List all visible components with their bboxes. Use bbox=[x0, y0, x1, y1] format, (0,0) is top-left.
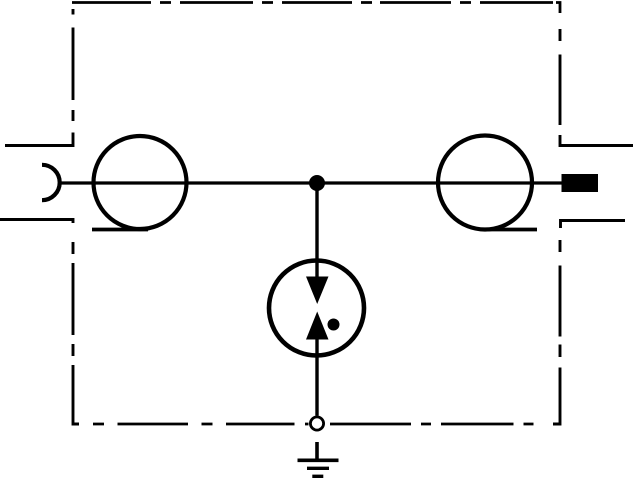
wire: arrester down to earthing terminal bbox=[315, 339, 318, 416]
enclosure boundary: left border upper segments bbox=[72, 9, 75, 121]
feed-through decoupling element (right circle) bbox=[438, 136, 532, 230]
enclosure boundary: left border lower segments bbox=[72, 242, 75, 356]
wire: junction down to arrester bbox=[315, 183, 318, 277]
surge arrester F1: gas discharge tube circle bbox=[269, 261, 364, 356]
female coaxial connector (input socket) bbox=[42, 165, 60, 200]
enclosure boundary: lower-left port notch line with corner tick bbox=[0, 220, 73, 224]
arrester marking dot bbox=[328, 319, 340, 331]
enclosure boundary: top dash-dot border bbox=[72, 1, 553, 4]
ground symbol bar 2 bbox=[307, 467, 329, 470]
feed-through decoupling element (left circle) bbox=[94, 136, 187, 229]
male coaxial connector (output plug) bbox=[562, 174, 599, 192]
enclosure boundary: left border turning into upper-left port notch line bbox=[5, 133, 73, 146]
shield contact line of right feed-through bbox=[486, 228, 537, 232]
wire: main signal path bbox=[59, 181, 562, 184]
shield contact line of left feed-through bbox=[92, 228, 148, 232]
ground symbol stem bbox=[315, 442, 319, 460]
ground symbol bar 1 bbox=[298, 458, 339, 462]
enclosure boundary: lower-right port notch line with corner tick bbox=[561, 221, 626, 229]
enclosure boundary: bottom-right corner bbox=[553, 368, 560, 425]
enclosure boundary: right border upper segments bbox=[559, 29, 562, 125]
enclosure boundary: right border lower segments bbox=[559, 240, 562, 357]
earthing terminal (open circle on enclosure boundary) bbox=[310, 417, 323, 430]
enclosure boundary: bottom-left corner bbox=[73, 365, 79, 424]
enclosure boundary: bottom dash-dot border right of terminal bbox=[330, 423, 534, 426]
arrester electrode arrow (bottom, pointing up) bbox=[306, 312, 329, 340]
enclosure boundary: right border turning into upper-right port notch line bbox=[560, 135, 633, 146]
enclosure boundary: top-right corner tick bbox=[556, 3, 560, 14]
enclosure boundary: bottom dash-dot border left of terminal bbox=[93, 423, 309, 426]
node: junction of signal path and arrester branch bbox=[309, 175, 325, 191]
ground symbol bar 3 bbox=[312, 475, 323, 478]
arrester electrode arrow (top, pointing down) bbox=[306, 277, 329, 305]
